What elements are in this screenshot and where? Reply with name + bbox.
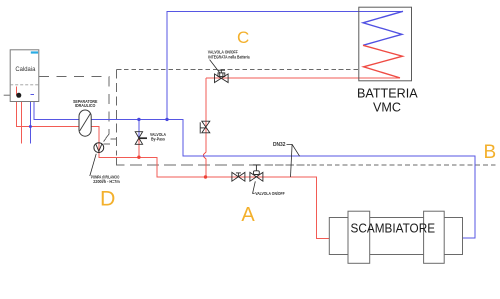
label POMPA di RILANCIO [91, 174, 120, 184]
wire: blue run from Caldaia through separator [34, 86, 475, 238]
svg-text:VMC: VMC [373, 100, 401, 114]
node: blue junction at separator header [165, 118, 168, 121]
node: red junction by-pass bottom [137, 156, 140, 159]
coil red section [363, 45, 403, 78]
leader line pump label [90, 154, 96, 176]
wire: blue supply top run to battery [167, 11, 403, 119]
svg-text:DN32: DN32 [273, 142, 286, 148]
wire: long dashed line to right edge [130, 164, 497, 166]
wire: red supply from Caldaia through separator, pump, to exchanger [16, 86, 329, 238]
wire: blue riser of by-pass valve [138, 119, 140, 138]
wire: red riser to valve C with hop over blue [204, 78, 206, 177]
wire: dashed vertical of valve-group boundary [117, 70, 125, 165]
wire: red lower part of by-pass branch [138, 138, 140, 157]
wire: blue stub below Caldaia [29, 86, 31, 143]
wire: gray stub left of Caldaia [4, 94, 11, 96]
node: blue tick in Caldaia [30, 93, 34, 95]
label VALVOLA By-Pass [150, 132, 167, 142]
leader line DN32 to blue pipe [287, 144, 300, 156]
valve A1 (hand valve on exchanger line) [232, 172, 245, 181]
wire: red battery return line [206, 77, 400, 79]
leader line DN32 to red pipe [291, 144, 293, 177]
svg-text:VALVOLA ON/OFF: VALVOLA ON/OFF [255, 191, 285, 196]
svg-text:2200l/h - H=7m: 2200l/h - H=7m [93, 179, 120, 184]
svg-text:C: C [237, 28, 249, 47]
leader line valve A label [253, 181, 256, 193]
label BATTERIA VMC [357, 87, 418, 115]
node: red junction at valve riser [204, 175, 207, 178]
wire: dashed boundary from Caldaia to valve group [39, 77, 117, 144]
valve V2 (vertical, on battery riser) [200, 121, 210, 133]
node: blue junction by-pass top [137, 118, 140, 121]
heat exchanger SCAMBIATORE [329, 211, 462, 263]
svg-text:A: A [241, 204, 255, 226]
valve A2 motorized VALVOLA ON/OFF [250, 165, 263, 181]
node: black pump dot inside Caldaia [16, 93, 21, 98]
boiler red pipe pair [15, 86, 17, 95]
hydraulic separator SEPARATORE IDRAULICO [73, 99, 98, 136]
wire: red stub below Caldaia [20, 86, 22, 143]
battery coil box BATTERIA VMC [359, 7, 412, 81]
boiler Caldaia [10, 50, 39, 102]
leader line valve C label [210, 60, 220, 73]
label VALVOLA ON/OFF INTEGRATA nella Batteria [208, 49, 250, 59]
svg-text:D: D [100, 187, 115, 211]
wire: dashed boundary top to BATTERIA [117, 69, 359, 71]
svg-text:BATTERIA: BATTERIA [357, 87, 418, 101]
valve C motorized VALVOLA ON/OFF INTEGRATA [215, 70, 229, 82]
coil blue section [363, 11, 403, 45]
valve by-pass (vertical) [135, 132, 147, 145]
svg-text:Caldaia: Caldaia [15, 66, 35, 73]
pump P1 circulator [94, 143, 104, 153]
node: blue crossing mark [29, 125, 32, 128]
svg-text:IDRAULICO: IDRAULICO [75, 103, 96, 108]
svg-text:INTEGRATA nella Batteria: INTEGRATA nella Batteria [208, 54, 250, 59]
svg-text:B: B [484, 142, 497, 163]
svg-text:By-Pass: By-Pass [151, 137, 165, 142]
svg-text:SCAMBIATORE: SCAMBIATORE [351, 221, 436, 235]
